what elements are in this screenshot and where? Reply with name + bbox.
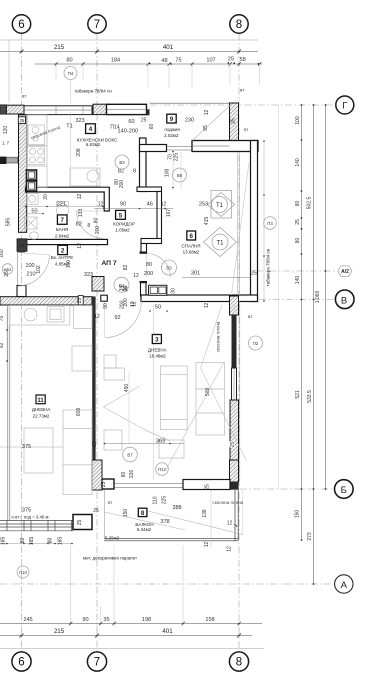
grid axis 7 vertical dashed <box>96 33 98 651</box>
svg-text:50: 50 <box>155 305 161 311</box>
svg-text:200: 200 <box>119 180 125 189</box>
svg-text:Б: Б <box>341 485 347 496</box>
svg-text:БАНЯ: БАНЯ <box>56 227 68 232</box>
wall hatched pier top-left <box>6 105 24 114</box>
svg-text:8: 8 <box>141 510 145 517</box>
svg-text:58: 58 <box>239 57 245 63</box>
svg-text:140-200: 140-200 <box>118 129 139 135</box>
svg-text:П2: П2 <box>253 341 259 346</box>
svg-text:140: 140 <box>295 276 301 285</box>
svg-text:100: 100 <box>295 116 301 125</box>
svg-text:25: 25 <box>19 243 25 248</box>
svg-text:12: 12 <box>94 314 100 320</box>
svg-text:А: А <box>341 580 348 591</box>
right dim chain line 3 <box>325 105 327 489</box>
svg-text:388: 388 <box>172 505 181 511</box>
svg-text:18.48м2: 18.48м2 <box>149 354 166 359</box>
room 9 loggia box <box>167 114 176 123</box>
wall hatched pier mid-top <box>93 104 107 114</box>
svg-text:7: 7 <box>94 657 100 669</box>
bubble 6 bottom <box>12 652 31 671</box>
svg-text:245: 245 <box>23 617 32 623</box>
svg-text:225: 225 <box>174 153 180 162</box>
bedroom wardrobe on wall <box>149 285 167 295</box>
svg-text:200: 200 <box>144 271 153 277</box>
svg-text:АП 7: АП 7 <box>101 260 117 267</box>
svg-text:509: 509 <box>205 388 211 397</box>
loggia door sill lines <box>167 147 193 151</box>
svg-text:75: 75 <box>0 316 5 322</box>
bubble G right <box>336 96 354 114</box>
svg-text:скосена плоча: скосена плоча <box>216 321 221 352</box>
svg-text:150: 150 <box>66 260 72 269</box>
svg-text:253: 253 <box>199 202 208 208</box>
svg-text:1.05м2: 1.05м2 <box>115 228 130 233</box>
svg-text:25: 25 <box>141 117 147 123</box>
extension lines bottom dims <box>22 545 240 636</box>
svg-text:лоджия: лоджия <box>164 127 180 132</box>
dnevna1 door arc <box>105 301 142 338</box>
svg-text:25: 25 <box>77 298 83 304</box>
bathroom bottom wall <box>18 239 108 244</box>
svg-text:60: 60 <box>149 124 155 130</box>
bedroom right wall <box>251 141 258 302</box>
top dim row 2 line <box>35 63 262 65</box>
svg-text:12: 12 <box>77 243 83 249</box>
wall hatched pillar loggia right <box>230 103 239 152</box>
room 8 balcony box <box>138 508 147 516</box>
svg-text:35: 35 <box>103 617 109 623</box>
svg-text:375: 375 <box>22 508 31 514</box>
bathroom shower <box>25 217 38 229</box>
dark 25 box at antre <box>17 239 27 252</box>
svg-text:5: 5 <box>119 212 123 219</box>
svg-text:Т1: Т1 <box>66 124 73 130</box>
axis G horizontal dashed <box>150 104 336 106</box>
svg-text:323: 323 <box>84 272 93 278</box>
svg-text:230: 230 <box>185 118 194 124</box>
svg-text:3: 3 <box>155 337 159 344</box>
axis B horizontal dashed <box>240 488 335 490</box>
dnevna1 slope diagonal <box>201 305 247 461</box>
interior dim helper lines <box>7 112 211 548</box>
svg-text:60: 60 <box>128 119 134 125</box>
svg-text:221: 221 <box>57 201 66 207</box>
svg-text:12: 12 <box>227 546 233 552</box>
wall top-left dark box <box>0 105 6 114</box>
svg-text:12: 12 <box>130 302 136 308</box>
svg-text:П4: П4 <box>68 71 74 76</box>
bubble A2 hexagon <box>338 266 352 277</box>
svg-text:120: 120 <box>3 126 9 135</box>
svg-text:25: 25 <box>92 441 98 447</box>
svg-text:184: 184 <box>111 58 120 64</box>
window P14 140-200 <box>107 104 147 114</box>
dnevna1 right window <box>232 368 237 400</box>
window projection V dnevna <box>104 386 171 441</box>
svg-text:В3: В3 <box>119 160 125 165</box>
svg-text:401: 401 <box>163 44 174 51</box>
svg-text:12: 12 <box>77 194 83 200</box>
svg-text:мет. декоративен парапет: мет. декоративен парапет <box>83 556 137 561</box>
svg-text:8: 8 <box>236 657 242 669</box>
svg-text:ДНЕВНА: ДНЕВНА <box>32 407 51 412</box>
corridor right wall upper band A <box>140 138 147 192</box>
wall stub left dark <box>0 157 6 164</box>
bottom dim row 1 <box>0 623 262 625</box>
svg-text:609: 609 <box>76 408 82 417</box>
kitchen dark boxes <box>27 170 37 191</box>
wall band C below jog <box>141 244 147 253</box>
P2 bubble <box>249 336 263 350</box>
svg-text:13.68м2: 13.68м2 <box>183 249 200 254</box>
svg-text:75: 75 <box>175 58 181 64</box>
dnevna1 sofa <box>160 366 187 430</box>
svg-text:107: 107 <box>206 58 215 64</box>
axis V horizontal dashed <box>259 299 335 301</box>
balcony slope diagonal <box>104 512 185 530</box>
svg-text:12: 12 <box>204 542 210 548</box>
bottom hatched band dnevna11 <box>0 297 92 305</box>
left exterior hatched wall <box>19 115 27 233</box>
bubble 8 top <box>230 15 248 33</box>
svg-text:585: 585 <box>6 218 12 227</box>
grid axis 6 vertical dashed <box>21 33 23 651</box>
svg-text:25: 25 <box>230 118 236 124</box>
bubble A right <box>335 575 353 593</box>
dnevna11 dim line 375 <box>0 446 63 448</box>
wall jog 2 <box>141 239 162 244</box>
svg-text:СПАЛНЯ: СПАЛНЯ <box>181 244 200 249</box>
svg-text:Вк. АНТРЕ: Вк. АНТРЕ <box>51 255 73 260</box>
V3 bubble kitchen <box>115 155 129 169</box>
svg-text:25: 25 <box>251 271 257 277</box>
right face helper line <box>278 105 280 489</box>
svg-text:В7: В7 <box>127 453 133 458</box>
svg-text:198: 198 <box>142 617 151 623</box>
kitchen appliance top <box>28 125 45 145</box>
kitchen table right <box>70 168 100 186</box>
svg-text:165: 165 <box>1 537 7 546</box>
svg-text:225: 225 <box>161 496 167 505</box>
hatched pier balcony right <box>230 460 239 482</box>
loggia slope diagonal <box>193 105 232 141</box>
svg-text:375: 375 <box>22 444 31 450</box>
svg-text:25: 25 <box>93 508 99 514</box>
dnevna1 right dark wall segment <box>232 315 237 368</box>
hatched pier left of balcony <box>92 460 102 490</box>
room 5 corridor box <box>116 210 126 219</box>
svg-text:401: 401 <box>162 628 173 635</box>
entry door jamb lines <box>18 251 26 253</box>
left edge wall line <box>8 40 10 103</box>
loggia open edge top <box>150 102 230 104</box>
svg-text:П12: П12 <box>158 467 166 472</box>
extension lines top dims <box>56 64 260 88</box>
svg-text:273: 273 <box>307 532 313 541</box>
svg-text:В6: В6 <box>177 173 183 178</box>
bathroom washer <box>27 194 39 205</box>
axis A2 horizontal dashed <box>256 270 337 272</box>
bathroom toilet <box>57 204 69 218</box>
svg-text:7: 7 <box>94 19 100 31</box>
room 2 antre box <box>58 245 68 254</box>
svg-text:80: 80 <box>295 201 301 207</box>
svg-text:табакера 78/94 сн: табакера 78/94 сн <box>74 88 112 93</box>
bubble 6 top <box>12 15 30 33</box>
svg-text:200: 200 <box>95 226 101 235</box>
dnevna1 right outer face line <box>239 301 241 481</box>
svg-text:12: 12 <box>227 521 233 527</box>
svg-text:6: 6 <box>18 657 24 669</box>
svg-text:138: 138 <box>202 509 208 518</box>
svg-text:80: 80 <box>146 262 152 268</box>
svg-text:6: 6 <box>18 19 24 31</box>
svg-text:80: 80 <box>20 538 26 544</box>
dnevna11 kitchenette <box>10 306 70 326</box>
svg-text:20: 20 <box>43 194 49 200</box>
radiator T1 upper <box>208 191 235 219</box>
svg-text:25: 25 <box>204 484 210 490</box>
svg-text:9: 9 <box>170 116 174 123</box>
svg-text:н вт г. под = 3.40 м: н вт г. под = 3.40 м <box>12 515 49 520</box>
svg-text:25: 25 <box>4 271 10 277</box>
room 11 dnevna box <box>36 395 45 404</box>
svg-text:80: 80 <box>295 238 301 244</box>
balcony top wall right bar <box>183 480 230 490</box>
P12 bubble <box>156 463 169 476</box>
svg-text:80: 80 <box>48 538 54 544</box>
svg-text:12: 12 <box>204 110 210 116</box>
svg-text:25: 25 <box>295 219 301 225</box>
svg-text:2.84м2: 2.84м2 <box>55 234 70 239</box>
bubble 8 bottom <box>229 652 248 671</box>
hatched pillar right of dnevna1 top <box>230 296 239 315</box>
bedroom right dim helper <box>263 141 265 301</box>
wall cap at loggia <box>146 109 149 115</box>
svg-text:502.5: 502.5 <box>306 197 312 210</box>
bedroom dim helper <box>180 152 182 190</box>
svg-text:22.73м2: 22.73м2 <box>33 414 50 419</box>
bottom dim row 2 <box>0 635 252 637</box>
svg-text:12: 12 <box>204 303 210 309</box>
svg-text:110: 110 <box>152 496 158 504</box>
bathroom top wall <box>26 187 110 211</box>
top dim row 1 line <box>0 51 258 53</box>
bedroom slope diagonal <box>232 163 250 295</box>
svg-text:450: 450 <box>124 384 130 393</box>
wall cap C <box>140 252 148 254</box>
dnevna divider wall vertical <box>92 297 95 484</box>
right dim chain line 1 <box>301 105 303 540</box>
svg-text:12: 12 <box>161 202 167 208</box>
room 4 kitchen box <box>86 124 96 134</box>
svg-text:табакера 78/94 сн: табакера 78/94 сн <box>265 248 270 286</box>
svg-text:25: 25 <box>20 118 25 123</box>
kitchen counter <box>27 115 47 187</box>
svg-text:скосена плоча: скосена плоча <box>212 500 243 505</box>
svg-text:102: 102 <box>36 265 42 274</box>
svg-text:25: 25 <box>77 520 83 526</box>
svg-text:90: 90 <box>103 303 109 309</box>
svg-text:215: 215 <box>54 628 65 635</box>
svg-text:521: 521 <box>295 390 301 399</box>
svg-text:165: 165 <box>29 537 35 546</box>
svg-text:133: 133 <box>78 209 84 218</box>
bathroom door arc <box>77 211 104 239</box>
svg-text:8: 8 <box>133 169 136 175</box>
bottom border line <box>0 648 264 650</box>
svg-text:92: 92 <box>0 343 5 349</box>
svg-text:12: 12 <box>133 273 139 279</box>
svg-text:1.066: 1.066 <box>315 291 321 304</box>
bubble V right <box>335 290 354 309</box>
bedroom lower-left wall <box>141 282 147 297</box>
bedroom door arc <box>147 254 171 278</box>
svg-text:208: 208 <box>76 148 82 157</box>
svg-text:82: 82 <box>76 222 82 228</box>
svg-text:46: 46 <box>147 202 153 208</box>
25 box dnevna11 bottom right <box>73 515 92 530</box>
svg-text:12: 12 <box>98 202 104 208</box>
svg-text:158: 158 <box>205 617 214 623</box>
bedroom left wall band B <box>157 192 162 244</box>
svg-text:А/2: А/2 <box>341 269 349 275</box>
svg-text:80: 80 <box>66 58 72 64</box>
svg-text:90: 90 <box>82 617 88 623</box>
svg-text:30: 30 <box>123 285 129 291</box>
svg-text:80: 80 <box>121 472 127 478</box>
svg-text:215: 215 <box>54 44 65 51</box>
svg-text:7: 7 <box>60 217 64 224</box>
svg-text:200: 200 <box>119 300 125 309</box>
dnevna1 right hatched wall lower <box>230 400 239 460</box>
svg-text:226: 226 <box>129 470 135 479</box>
dnevna11 bottom window band <box>0 521 73 531</box>
right dim chain line 2 <box>313 105 315 584</box>
svg-text:В3: В3 <box>166 266 172 271</box>
svg-text:П10: П10 <box>19 570 27 575</box>
loggia bottom wall <box>140 145 167 152</box>
room 6 bedroom box <box>187 231 196 240</box>
svg-text:90: 90 <box>120 202 126 208</box>
svg-text:150: 150 <box>294 510 300 519</box>
room 1 dnevna box <box>152 335 161 344</box>
svg-text:8: 8 <box>236 19 242 31</box>
grid axis 8 vertical dashed <box>238 34 240 652</box>
svg-text:ДНЕВНА: ДНЕВНА <box>148 348 167 353</box>
svg-text:25: 25 <box>101 482 107 488</box>
svg-text:Т1: Т1 <box>216 240 224 246</box>
P4 bubble <box>64 67 77 80</box>
V6 bubble <box>173 168 187 182</box>
dnevna1 rects bottom <box>159 440 184 458</box>
svg-text:6.34м2: 6.34м2 <box>137 527 152 532</box>
svg-text:533.5: 533.5 <box>307 390 313 403</box>
balcony left edge line <box>104 490 106 538</box>
dnevna1 top dims <box>114 277 129 292</box>
svg-text:2.02м2: 2.02м2 <box>164 133 179 138</box>
svg-text:25: 25 <box>230 442 236 448</box>
svg-text:11: 11 <box>37 398 44 404</box>
svg-text:Г: Г <box>342 101 347 112</box>
bubble 7 top <box>88 15 106 33</box>
svg-text:92: 92 <box>114 315 120 321</box>
svg-text:80: 80 <box>94 218 100 224</box>
balcony bottom edge lines <box>104 538 238 541</box>
V3 bubble bedroom door <box>162 260 177 275</box>
P3 bubble <box>264 217 277 230</box>
bubble B right <box>335 480 354 499</box>
svg-text:323: 323 <box>75 118 84 124</box>
svg-text:30: 30 <box>171 288 177 294</box>
entry door arc <box>19 255 50 286</box>
V7 bubble <box>123 447 138 462</box>
svg-text:48: 48 <box>161 58 167 64</box>
svg-text:165: 165 <box>58 537 64 546</box>
svg-text:82: 82 <box>118 169 124 175</box>
dnevna11 left wall lines <box>8 305 10 521</box>
svg-text:6: 6 <box>189 233 193 240</box>
balcony top wall left box <box>102 479 114 489</box>
room 7 bath box <box>57 215 67 224</box>
white box below entry <box>17 286 26 297</box>
svg-text:4: 4 <box>89 126 93 133</box>
svg-text:150: 150 <box>123 509 129 518</box>
svg-text:82: 82 <box>123 265 129 271</box>
svg-text:25: 25 <box>228 57 234 63</box>
svg-text:85: 85 <box>203 125 209 131</box>
svg-text:Т1: Т1 <box>216 203 224 209</box>
dnevna1 small cabinets top <box>104 355 116 368</box>
svg-text:378: 378 <box>160 519 169 525</box>
svg-text:160: 160 <box>0 249 5 258</box>
svg-text:П3: П3 <box>267 221 273 226</box>
dnevna11 sofa <box>24 428 53 473</box>
bedroom top window line <box>192 145 230 147</box>
svg-text:5.25м2: 5.25м2 <box>105 536 120 541</box>
bubble 7 bottom <box>87 652 106 671</box>
svg-text:8: 8 <box>87 223 90 229</box>
svg-text:6.63м2: 6.63м2 <box>86 142 101 147</box>
top border line <box>0 39 258 41</box>
svg-text:301: 301 <box>191 271 200 277</box>
bedroom top wall <box>192 141 258 152</box>
bath dim line <box>26 206 104 208</box>
svg-text:210: 210 <box>26 272 35 278</box>
svg-text:140: 140 <box>295 158 301 167</box>
hatched pier at x92 <box>92 277 104 292</box>
bathroom sink <box>30 232 39 239</box>
P10 bubble <box>17 566 29 578</box>
radiator T1 lower <box>204 228 237 257</box>
dnevna1 table <box>196 363 225 436</box>
svg-text:В: В <box>341 295 347 306</box>
axis A horizontal dashed <box>0 583 335 585</box>
balcony door threshold lines <box>114 484 183 488</box>
wall jog corridor-bedroom <box>137 187 162 192</box>
svg-text:415: 415 <box>204 217 210 226</box>
svg-text:100: 100 <box>25 263 34 269</box>
svg-text:2: 2 <box>61 248 65 255</box>
svg-text:167: 167 <box>166 209 172 218</box>
window kitchen top <box>24 106 92 115</box>
svg-text:108: 108 <box>165 169 171 178</box>
svg-text:1. 7: 1. 7 <box>2 141 10 146</box>
bedroom closet lines <box>237 152 239 295</box>
bedroom bottom wall <box>141 295 258 302</box>
svg-text:КОРИДОР: КОРИДОР <box>113 222 135 227</box>
